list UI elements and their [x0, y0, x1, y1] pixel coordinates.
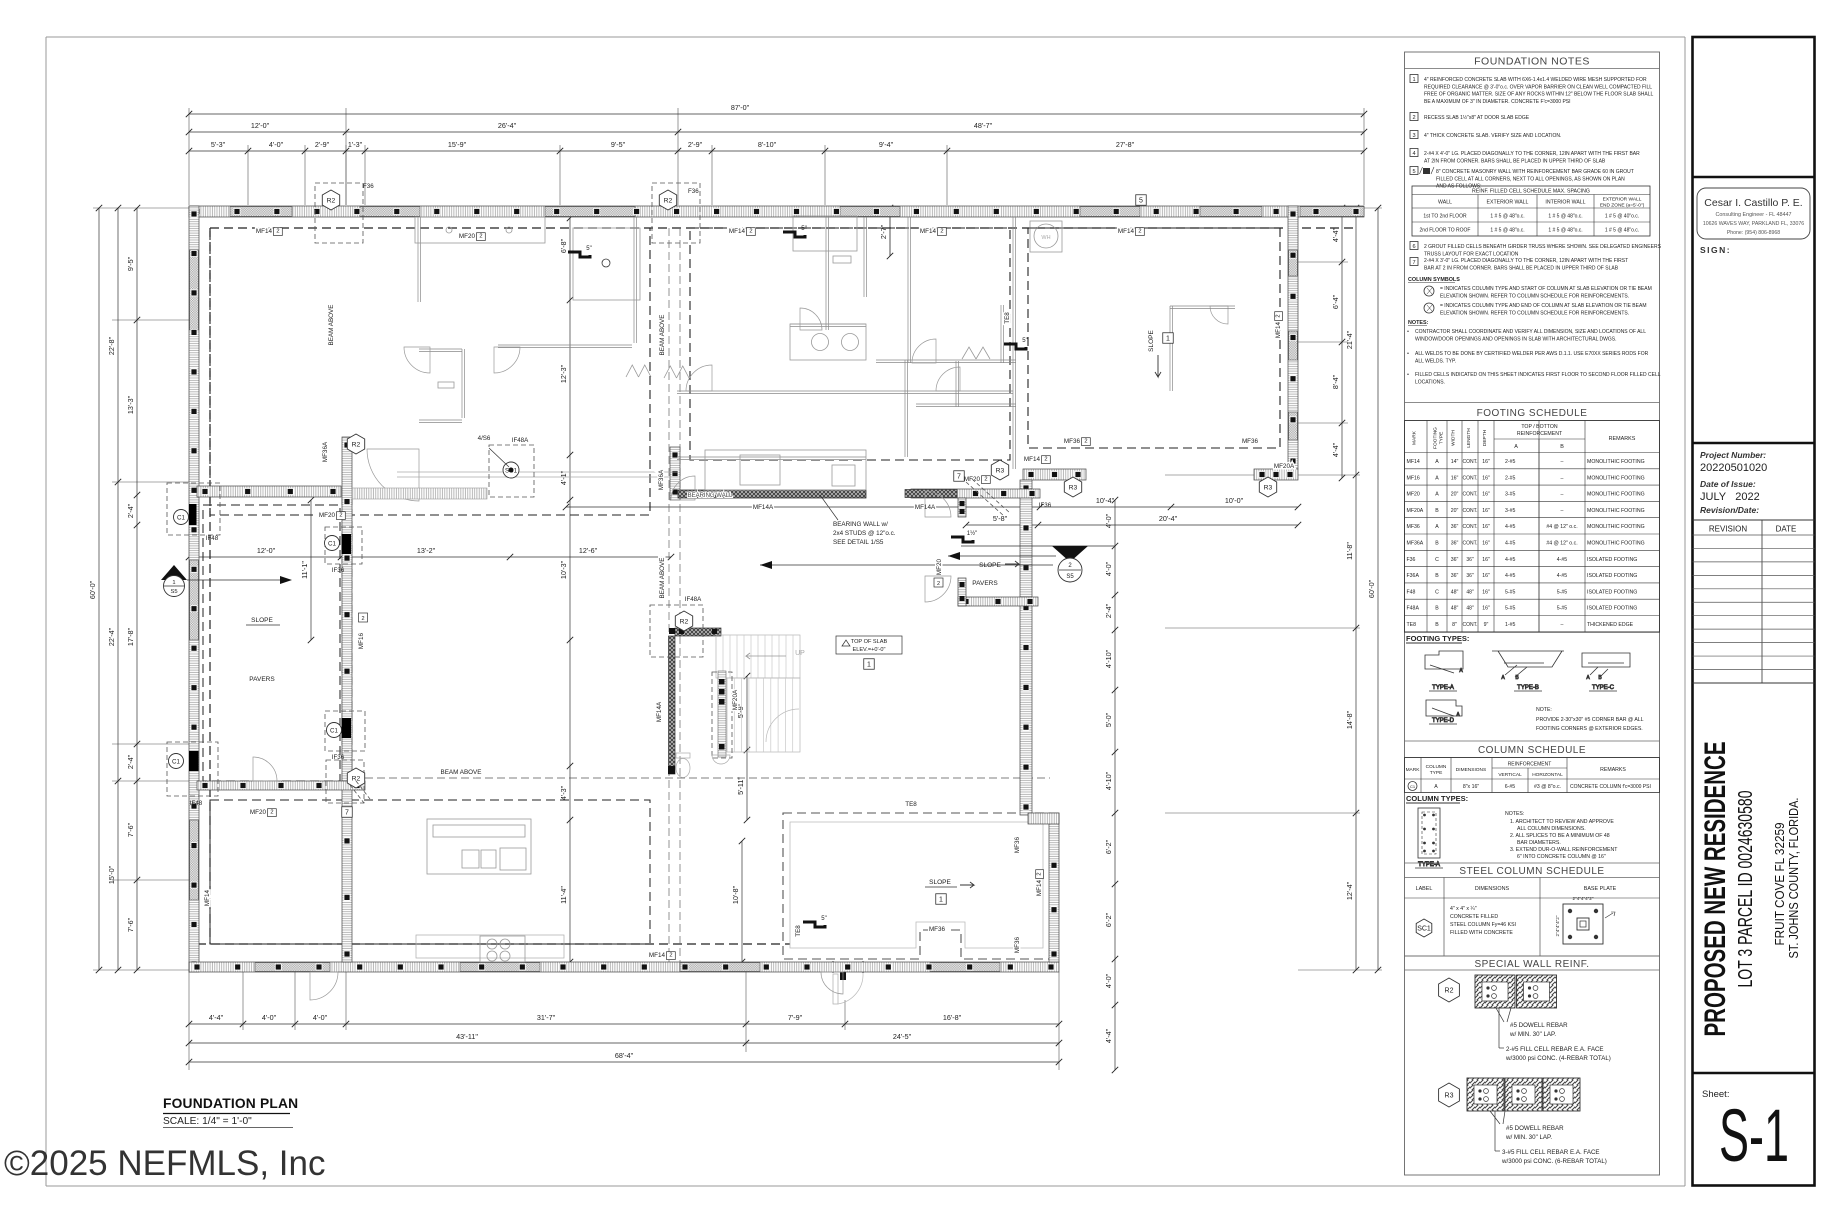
svg-text:2: 2: [1037, 872, 1043, 875]
svg-text:36": 36": [1466, 557, 1474, 563]
svg-text:MONOLITHIC FOOTING: MONOLITHIC FOOTING: [1587, 524, 1645, 530]
svg-text:TYPE: TYPE: [1430, 770, 1443, 776]
svg-text:MF14: MF14: [204, 889, 211, 906]
small vertical wall right unit lower: [958, 578, 966, 606]
svg-text:2: 2: [1138, 229, 1141, 235]
svg-text:BAR AT 2 IN FROM CORNER. BARS: BAR AT 2 IN FROM CORNER. BARS SHALL BE P…: [1424, 265, 1619, 271]
svg-text:R2: R2: [664, 198, 673, 205]
column type A diagram: [1415, 808, 1443, 868]
svg-text:TOP OF SLAB: TOP OF SLAB: [851, 639, 888, 645]
svg-text:2: 2: [479, 234, 482, 240]
svg-text:B: B: [1435, 606, 1439, 612]
sheet border frame: [46, 36, 1685, 38]
svg-text:20": 20": [1451, 508, 1459, 514]
svg-text:20": 20": [1451, 492, 1459, 498]
exterior wall left: [189, 206, 199, 972]
step marker 5" at 1016,344: [1004, 338, 1028, 349]
dashed beam above vertical unit divider: [668, 228, 670, 962]
shower master: [793, 216, 857, 251]
svg-text:STEEL COLUMN SCHEDULE: STEEL COLUMN SCHEDULE: [1459, 866, 1604, 877]
svg-text:2-#4 X 4'-0" LG. PLACED DIAGON: 2-#4 X 4'-0" LG. PLACED DIAGONALLY TO TH…: [1424, 151, 1640, 157]
engineer stamp: [1697, 188, 1810, 239]
label MF14 garage right vertical: [1275, 312, 1283, 338]
partition kitchen wall: [677, 457, 866, 460]
svg-text:SC1: SC1: [1417, 926, 1431, 933]
dim 60ft overall left: [88, 205, 102, 973]
dark crosshatch MF14A right unit: [905, 490, 957, 498]
svg-text:MF16: MF16: [1407, 475, 1420, 481]
svg-text:FOOTING TYPES:: FOOTING TYPES:: [1406, 634, 1469, 643]
svg-text:Project Number:: Project Number:: [1700, 450, 1766, 460]
svg-text:7: 7: [1412, 260, 1415, 266]
svg-text:87'-0": 87'-0": [731, 103, 750, 112]
svg-text:5": 5": [821, 916, 826, 922]
svg-text:R2: R2: [1445, 988, 1454, 995]
svg-text:16": 16": [1482, 475, 1490, 481]
svg-text:2: 2: [270, 810, 273, 816]
svg-text:BEAM ABOVE: BEAM ABOVE: [659, 558, 666, 599]
footing type A diagram: [1425, 651, 1463, 691]
svg-text:CONT.: CONT.: [1463, 524, 1478, 530]
footing type D diagram: [1426, 700, 1462, 724]
svg-text:10626 WAVES WAY, PARKLAND FL,: 10626 WAVES WAY, PARKLAND FL, 33076: [1703, 221, 1804, 227]
svg-text:2 GROUT FILLED CELLS BENEATH G: 2 GROUT FILLED CELLS BENEATH GIRDER TRUS…: [1424, 244, 1662, 250]
svg-text:WIDTH: WIDTH: [1451, 430, 1457, 446]
svg-text:CONTRACTOR SHALL COORDINATE AN: CONTRACTOR SHALL COORDINATE AND VERIFY A…: [1415, 329, 1646, 335]
leader dashes to box 7 left: [350, 785, 364, 803]
dashed rect left unit top room: [210, 228, 650, 515]
interior wall left unit horiz mid: [197, 486, 341, 497]
svg-text:2. ALL SPLICES TO BE A MINIMU: 2. ALL SPLICES TO BE A MINIMUM OF 48: [1510, 833, 1610, 839]
dim right mid col: [1345, 205, 1359, 973]
svg-text:2'-9": 2'-9": [688, 140, 703, 149]
svg-text:A: A: [1435, 475, 1439, 481]
label MF14 top 4: [1118, 228, 1144, 236]
note item 4: [1410, 149, 1640, 165]
svg-text:4'-4": 4'-4": [1331, 227, 1340, 242]
svg-text:11'-4": 11'-4": [559, 886, 568, 904]
svg-text:FILLED CELL AT ALL CORNERS, NE: FILLED CELL AT ALL CORNERS, NEXT TO ALL …: [1436, 176, 1625, 182]
svg-text:R2: R2: [680, 619, 689, 626]
rear door opening: [833, 961, 863, 973]
bottom right room wall top piece: [1028, 813, 1059, 824]
svg-text:LOT 3 PARCEL ID 0024630580: LOT 3 PARCEL ID 0024630580: [1735, 791, 1757, 988]
svg-text:HORIZONTAL: HORIZONTAL: [1532, 772, 1563, 778]
dashed beam above horizontal: [365, 777, 1050, 779]
R3 wall reinf detail: [1439, 1078, 1607, 1165]
kitchen counter mid unit: [705, 450, 866, 490]
svg-text:12'-3": 12'-3": [559, 364, 568, 383]
revision table: [1693, 520, 1815, 683]
svg-text:6" INTO CONCRETE COLUMN @ 16": 6" INTO CONCRETE COLUMN @ 16": [1517, 854, 1606, 860]
svg-text:TYPE-C: TYPE-C: [1592, 685, 1615, 691]
svg-text:2: 2: [1276, 314, 1282, 317]
footing schedule title band: [1405, 402, 1660, 404]
label MF14 top 3: [920, 228, 946, 236]
extension lines bottom: [188, 972, 190, 1070]
svg-text:C1: C1: [172, 758, 180, 765]
extension lines top: [188, 108, 190, 205]
svg-text:NOTES:: NOTES:: [1408, 320, 1429, 326]
inner light rect br room: [790, 822, 1043, 948]
svg-text:DIMENSIONS: DIMENSIONS: [1475, 886, 1510, 892]
svg-text:4" THICK CONCRETE SLAB. VERIFY: 4" THICK CONCRETE SLAB. VERIFY SIZE AND …: [1424, 133, 1561, 139]
svg-text:9'-5": 9'-5": [126, 256, 135, 271]
dim 10-4 10-0: [563, 496, 1301, 510]
svg-text:ELEV.=+0'-0": ELEV.=+0'-0": [852, 647, 885, 653]
special wall reinf title band: [1405, 955, 1660, 957]
svg-text:TYPE-A: TYPE-A: [1432, 685, 1454, 691]
svg-text:ELEVATION SHOWN. REFER TO COLU: ELEVATION SHOWN. REFER TO COLUMN SCHEDUL…: [1440, 293, 1629, 299]
svg-text:SLOPE: SLOPE: [1148, 330, 1155, 352]
svg-text:F48: F48: [1407, 589, 1416, 595]
svg-text:A: A: [1514, 444, 1518, 450]
svg-text:REQUIRED CLEARANCE @ 3'-0"o.c.: REQUIRED CLEARANCE @ 3'-0"o.c. OVER VAPO…: [1424, 84, 1652, 90]
svg-text:Consulting Engineer - FL 48447: Consulting Engineer - FL 48447: [1716, 212, 1792, 218]
powder sink: [712, 755, 730, 764]
svg-text:REMARKS: REMARKS: [1600, 767, 1626, 773]
svg-text:WH: WH: [1041, 235, 1050, 241]
top of slab label: [836, 636, 902, 669]
partition toilet room right: [462, 349, 465, 418]
R2 hexagon top wall 2: [652, 183, 700, 243]
svg-text:SLOPE: SLOPE: [979, 562, 1001, 569]
light wall band 11-1 segment: [352, 488, 487, 499]
svg-text:4'-0": 4'-0": [313, 1013, 328, 1022]
svg-text:2x4 STUDS @ 12"o.c.: 2x4 STUDS @ 12"o.c.: [833, 530, 896, 537]
svg-text:MARK: MARK: [1406, 767, 1421, 773]
svg-text:PAVERS: PAVERS: [972, 580, 998, 587]
svg-text:MONOLITHIC FOOTING: MONOLITHIC FOOTING: [1587, 475, 1645, 481]
svg-text:FRUIT COVE FL 32259: FRUIT COVE FL 32259: [1772, 823, 1787, 946]
section marker 2/S5: [760, 546, 1115, 582]
footing schedule table: [1405, 421, 1660, 633]
svg-text:MF36A: MF36A: [658, 469, 665, 490]
svg-text:13'-2": 13'-2": [417, 546, 436, 555]
door arc right unit b: [1210, 306, 1228, 324]
svg-text:•: •: [1407, 372, 1409, 378]
label MF20 left room: [319, 512, 345, 520]
svg-text:2: 2: [984, 477, 987, 483]
svg-text:A: A: [1435, 524, 1439, 530]
svg-text:7'-6": 7'-6": [126, 917, 135, 932]
R3 hexagon garage bottom b: [1259, 477, 1276, 497]
svg-text:9'-4": 9'-4": [879, 140, 894, 149]
svg-text:68'-4": 68'-4": [615, 1051, 634, 1060]
svg-text:14'-8": 14'-8": [1345, 710, 1354, 729]
svg-text:IF48A: IF48A: [512, 437, 529, 444]
toilet master: [833, 256, 851, 285]
svg-text:MF36: MF36: [1407, 524, 1420, 530]
WH water heater: [1030, 221, 1062, 252]
dashed rect garage MF14: [1028, 228, 1280, 448]
svg-text:5: 5: [1139, 198, 1143, 205]
svg-text:4'-0": 4'-0": [269, 140, 284, 149]
svg-text:B: B: [1435, 573, 1439, 579]
svg-text:NOTE:: NOTE:: [1536, 707, 1552, 713]
svg-text:PROPOSED NEW RESIDENCE: PROPOSED NEW RESIDENCE: [1699, 742, 1732, 1037]
svg-text:21'-4": 21'-4": [1345, 330, 1354, 349]
svg-text:MONOLITHIC FOOTING: MONOLITHIC FOOTING: [1587, 508, 1645, 514]
svg-text:20220501020: 20220501020: [1700, 462, 1767, 474]
exterior wall top: [189, 206, 1364, 217]
svg-text:MF14: MF14: [1024, 456, 1041, 463]
svg-text:36": 36": [1466, 573, 1474, 579]
svg-text:ALL COLUMN DIMENSIONS.: ALL COLUMN DIMENSIONS.: [1517, 826, 1586, 832]
svg-text:EXTERIOR WALL: EXTERIOR WALL: [1487, 200, 1529, 206]
svg-text:THICKENED EDGE: THICKENED EDGE: [1587, 622, 1634, 628]
svg-text:Cesar I. Castillo P. E.: Cesar I. Castillo P. E.: [1704, 197, 1802, 209]
svg-text:C1: C1: [1410, 784, 1416, 789]
vanity master two sinks: [790, 324, 866, 360]
svg-text:SLOPE: SLOPE: [929, 879, 951, 886]
svg-text:1-#5: 1-#5: [1505, 622, 1515, 628]
svg-text:BEARING WALL: BEARING WALL: [688, 493, 733, 499]
svg-text:SEE DETAIL 1/S5: SEE DETAIL 1/S5: [833, 539, 884, 546]
svg-text:LABEL: LABEL: [1416, 886, 1433, 892]
svg-text:R3: R3: [1069, 485, 1078, 492]
svg-text:F36: F36: [688, 188, 699, 195]
label box 7 right: [954, 471, 965, 482]
svg-text:3-#5: 3-#5: [1505, 508, 1515, 514]
bullet note 1: [1407, 329, 1646, 342]
column C1 fill interior wall lower: [342, 718, 352, 738]
svg-text:w/3000 psi CONC. (6-REBAR TOTA: w/3000 psi CONC. (6-REBAR TOTAL): [1501, 1158, 1607, 1165]
step marker 5" at 815,922: [803, 916, 827, 927]
svg-text:A: A: [1435, 492, 1439, 498]
svg-text:MF14: MF14: [729, 228, 746, 235]
svg-text:ISOLATED FOOTING: ISOLATED FOOTING: [1587, 589, 1637, 595]
extension lines right: [1298, 207, 1382, 209]
svg-text:REINF. FILLED CELL SCHEDULE MA: REINF. FILLED CELL SCHEDULE MAX. SPACING: [1472, 189, 1590, 195]
svg-text:2: 2: [749, 229, 752, 235]
svg-text:4-#5: 4-#5: [1505, 557, 1515, 563]
svg-text:16": 16": [1482, 508, 1490, 514]
svg-text:COLUMN TYPES:: COLUMN TYPES:: [1406, 794, 1468, 803]
svg-text:6'-8": 6'-8": [559, 238, 568, 253]
svg-text:43'-11": 43'-11": [456, 1032, 478, 1041]
svg-text:FOOTING CORNERS @ EXTERIOR EDG: FOOTING CORNERS @ EXTERIOR EDGES.: [1536, 726, 1643, 732]
vanity left unit two sinks: [415, 217, 545, 243]
svg-text:14": 14": [1451, 459, 1459, 465]
svg-text:11'-1": 11'-1": [300, 561, 309, 579]
steel column schedule title band: [1405, 862, 1660, 864]
garage bottom wall a: [1023, 469, 1086, 480]
IF48A dashed box rear: [650, 605, 703, 657]
svg-text:5'-3": 5'-3": [211, 140, 226, 149]
svg-text:12'-6": 12'-6": [579, 546, 598, 555]
svg-text:4-#5: 4-#5: [1505, 524, 1515, 530]
svg-text:1½": 1½": [967, 530, 977, 537]
svg-text:48'-7": 48'-7": [974, 121, 993, 130]
svg-text:DIMENSIONS: DIMENSIONS: [1456, 767, 1486, 773]
column C1 fill interior wall upper: [342, 534, 352, 554]
svg-text:2: 2: [1412, 115, 1415, 121]
svg-text:8'-10": 8'-10": [758, 140, 777, 149]
svg-text:4" REINFORCED CONCRETE SLAB WI: 4" REINFORCED CONCRETE SLAB WITH 6X6-1.4…: [1424, 77, 1647, 83]
svg-text:SCALE: 1/4" = 1'-0": SCALE: 1/4" = 1'-0": [163, 1116, 252, 1127]
svg-text:6'-4": 6'-4": [1331, 294, 1340, 309]
svg-text:2'-4": 2'-4": [1104, 603, 1113, 618]
svg-text:= INDICATES COLUMN TYPE AND EN: = INDICATES COLUMN TYPE AND END OF COLUM…: [1440, 303, 1646, 309]
svg-text:16": 16": [1482, 589, 1490, 595]
svg-text:2'-4": 2'-4": [126, 503, 135, 518]
svg-text:2: 2: [361, 616, 364, 622]
svg-text:7: 7: [345, 810, 349, 817]
svg-text:22'-8": 22'-8": [107, 336, 116, 355]
svg-text:3-#5: 3-#5: [1505, 492, 1515, 498]
bullet note 3: [1407, 372, 1661, 385]
svg-text:26'-4": 26'-4": [498, 121, 517, 130]
svg-text:ALL WELDS. TYP.: ALL WELDS. TYP.: [1415, 358, 1456, 364]
svg-text:12'-4": 12'-4": [1345, 881, 1354, 900]
svg-text:5": 5": [801, 226, 806, 232]
svg-text:MF14: MF14: [1118, 228, 1135, 235]
svg-text:C1: C1: [330, 727, 338, 734]
svg-text:TE8: TE8: [1004, 312, 1011, 324]
door arc court: [253, 757, 277, 781]
svg-text:1 # 5 @ 48"o.c.: 1 # 5 @ 48"o.c.: [1548, 228, 1582, 234]
svg-text:A: A: [1434, 784, 1438, 790]
svg-text:7'-6": 7'-6": [126, 822, 135, 837]
svg-text:REINFORCEMENT: REINFORCEMENT: [1517, 431, 1563, 437]
svg-text:2-#5: 2-#5: [1505, 475, 1515, 481]
svg-text:•: •: [1407, 329, 1409, 335]
door arc right unit: [912, 339, 936, 363]
label MF14 pavers court: [1024, 456, 1050, 464]
svg-text:12'-0": 12'-0": [257, 546, 276, 555]
svg-text:BASE PLATE: BASE PLATE: [1584, 886, 1617, 892]
svg-text:MF20A: MF20A: [1274, 463, 1295, 470]
svg-text:27'-8": 27'-8": [1116, 140, 1135, 149]
svg-text:C1: C1: [328, 540, 336, 547]
dim 87ft overall top: [186, 103, 1367, 117]
svg-text:w/ MIN. 30" LAP.: w/ MIN. 30" LAP.: [1509, 1031, 1556, 1038]
svg-text:REINFORCEMENT: REINFORCEMENT: [1508, 762, 1552, 768]
svg-text:6'-2": 6'-2": [1104, 912, 1113, 927]
door arc bed2: [936, 367, 960, 391]
title block divider 1: [1693, 176, 1815, 178]
label MF20 bottom left: [250, 809, 276, 817]
svg-text:R2: R2: [327, 198, 336, 205]
dashed beam above vertical left: [341, 497, 343, 781]
dim bottom row2: [186, 1032, 1062, 1046]
svg-text:5'-0": 5'-0": [1104, 712, 1113, 727]
svg-text:©2025 NEFMLS, Inc: ©2025 NEFMLS, Inc: [4, 1144, 325, 1183]
svg-text:60'-0": 60'-0": [1367, 579, 1376, 598]
svg-text:2'-7": 2'-7": [879, 224, 888, 239]
svg-text:–: –: [1561, 508, 1564, 514]
IF48A dashed box with SC1: [489, 445, 534, 497]
svg-text:4/S6: 4/S6: [478, 435, 491, 442]
svg-text:C: C: [1435, 557, 1439, 563]
svg-text:#4 @ 12" o.c.: #4 @ 12" o.c.: [1546, 524, 1577, 530]
svg-text:4-#5: 4-#5: [1505, 573, 1515, 579]
pavers step wall: [958, 597, 1038, 606]
note item 1: [1410, 75, 1654, 105]
svg-text:36": 36": [1451, 573, 1459, 579]
svg-text:20'-4": 20'-4": [1159, 514, 1178, 523]
small vertical wall right unit upper: [958, 498, 966, 517]
door arc rear: [310, 972, 338, 1000]
kitchen island left unit: [427, 819, 531, 874]
svg-text:5": 5": [1022, 338, 1027, 344]
garage bottom wall b: [1254, 469, 1298, 480]
partition bath wall v2: [864, 217, 867, 297]
svg-text:BEAM ABOVE: BEAM ABOVE: [659, 315, 666, 356]
svg-text:IF48: IF48: [206, 535, 219, 542]
footing type C diagram: [1582, 653, 1630, 691]
svg-text:MONOLITHIC FOOTING: MONOLITHIC FOOTING: [1587, 541, 1645, 547]
svg-text:LENGTH: LENGTH: [1466, 428, 1472, 448]
svg-text:36": 36": [1451, 557, 1459, 563]
svg-text:JULY 2022: JULY 2022: [1700, 491, 1760, 503]
svg-text:CONCRETE COLUMN f'c=3000 PSI: CONCRETE COLUMN f'c=3000 PSI: [1570, 784, 1651, 790]
svg-text:MF14: MF14: [649, 952, 666, 959]
dim 5-9 5-11: [736, 673, 750, 823]
svg-text:–: –: [1561, 492, 1564, 498]
svg-text:BAR DIAMETERS.: BAR DIAMETERS.: [1517, 840, 1561, 846]
dim interior 11-1: [300, 497, 314, 643]
svg-text:TOP / BOTTON: TOP / BOTTON: [1521, 424, 1558, 430]
svg-text:B: B: [1435, 622, 1439, 628]
svg-text:END ZONE (a=5'-0"): END ZONE (a=5'-0"): [1600, 203, 1645, 209]
dim 12-0 13-2 12-6: [186, 546, 674, 560]
svg-text:BE A MAXIMUM OF 3" IN DIAMETER: BE A MAXIMUM OF 3" IN DIAMETER. CONCRETE…: [1424, 99, 1571, 105]
svg-text:COLUMN SYMBOLS: COLUMN SYMBOLS: [1408, 277, 1460, 283]
right unit bearing wall MF14A: [911, 489, 1040, 498]
svg-text:#5 DOWELL REBAR: #5 DOWELL REBAR: [1506, 1125, 1564, 1132]
svg-text:MF20: MF20: [936, 558, 943, 575]
svg-text:VERTICAL: VERTICAL: [1498, 772, 1522, 778]
corridor light partitions: [397, 471, 678, 473]
svg-text:4'-0": 4'-0": [1104, 561, 1113, 576]
dim 60ft overall right: [1367, 205, 1381, 973]
svg-text:1 # 5 @ 48"o.c.: 1 # 5 @ 48"o.c.: [1490, 228, 1524, 234]
svg-text:IF36: IF36: [332, 754, 345, 761]
svg-text:2: 2: [1044, 457, 1047, 463]
partition closet: [956, 361, 959, 407]
svg-text:w/3000 psi CONC. (4-REBAR TOTA: w/3000 psi CONC. (4-REBAR TOTAL): [1505, 1055, 1611, 1062]
svg-text:CONT.: CONT.: [1463, 475, 1478, 481]
powder toilet: [676, 753, 690, 778]
dim interior x570: [559, 215, 573, 965]
svg-text:TYPE-D: TYPE-D: [1432, 718, 1455, 724]
svg-text:ISOLATED FOOTING: ISOLATED FOOTING: [1587, 557, 1637, 563]
svg-text:LOCATIONS.: LOCATIONS.: [1415, 379, 1445, 385]
dashed rect left court: [203, 505, 340, 781]
interior wall left unit vertical: [342, 437, 352, 962]
stair rear UP: [716, 635, 800, 752]
svg-text:16'-8": 16'-8": [943, 1013, 962, 1022]
column symbol f: [1424, 303, 1646, 316]
extension lines left: [93, 207, 189, 209]
partition right unit v3: [1170, 306, 1173, 391]
svg-text:CONT.: CONT.: [1463, 622, 1478, 628]
svg-text:NOTES:: NOTES:: [1505, 811, 1524, 817]
dim bottom row1: [186, 1013, 1062, 1027]
MF20A wall under stair: [712, 672, 732, 758]
svg-text:2'-4": 2'-4": [126, 754, 135, 769]
svg-text:1'-3": 1'-3": [348, 140, 363, 149]
svg-text:•: •: [1407, 351, 1409, 357]
svg-text:4'-0": 4'-0": [1104, 973, 1113, 988]
svg-text:4'-4": 4'-4": [209, 1013, 224, 1022]
partition left unit bath v: [418, 217, 421, 302]
door arc bath pair b: [494, 347, 520, 373]
svg-text:48": 48": [1451, 589, 1459, 595]
bearing wall dark crosshatch: [678, 490, 866, 498]
